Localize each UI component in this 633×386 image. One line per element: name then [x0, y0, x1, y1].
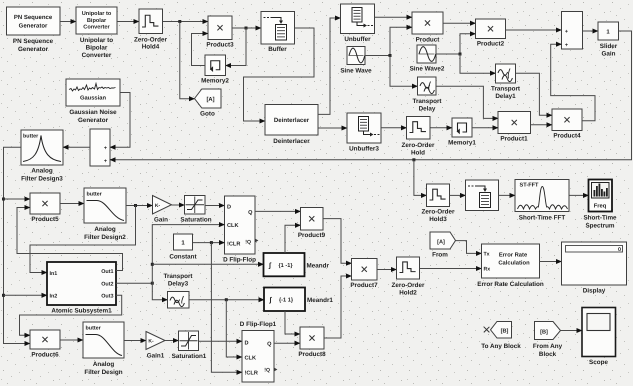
svg-text:Product: Product	[416, 37, 441, 44]
block Meandr1	[264, 288, 333, 312]
wire Out2 to junction tree	[116, 282, 152, 284]
svg-text:butter: butter	[87, 192, 103, 198]
block Unbuffer3	[347, 113, 381, 153]
svg-text:Zero-Order: Zero-Order	[402, 142, 435, 149]
svg-text:{1 -1}: {1 -1}	[279, 262, 294, 269]
block Memory1	[448, 118, 476, 147]
svg-text:Meandr: Meandr	[307, 263, 330, 270]
block Buffer1	[466, 180, 499, 211]
block Product1	[498, 112, 531, 143]
wire Meandr top to Product9 input 2	[285, 225, 301, 253]
junction Sine Wave2 output	[459, 53, 462, 56]
block Short-Time Spectrum	[583, 180, 617, 230]
gain block Gain	[153, 196, 172, 224]
svg-text:Converter: Converter	[82, 52, 112, 59]
svg-text:Product4: Product4	[553, 133, 581, 140]
junction Out2	[151, 282, 154, 285]
wire Sine Wave output with junction	[365, 27, 412, 55]
svg-text:PN Sequence: PN Sequence	[14, 14, 53, 21]
block Analog Filter Design3	[21, 130, 63, 182]
block Meandr	[264, 253, 330, 276]
svg-text:[A]: [A]	[437, 238, 445, 245]
block Product4	[552, 109, 582, 140]
svg-text:[A]: [A]	[206, 96, 214, 103]
wire junction down to Zero-Order Hold3	[414, 160, 427, 196]
svg-text:Transport: Transport	[412, 98, 442, 105]
wire Product4 output loop to Sum2 input 2	[551, 44, 595, 121]
svg-text:To Any Block: To Any Block	[481, 343, 521, 350]
block Analog Filter Design	[83, 322, 124, 376]
svg-text:Slider: Slider	[600, 43, 618, 50]
block D Flip-Flop	[223, 196, 258, 264]
wire Product9 to Product7 input 1	[323, 219, 352, 264]
wire Sine Wave2 output junction up to Product2 input 2	[436, 34, 476, 54]
wire junction down to Transport Delay1	[460, 54, 496, 73]
wire Zero-Order Hold2 to Error Rate Calculation Rx	[420, 268, 482, 270]
wire junction down to Atomic Subsystem1 In1	[30, 206, 136, 273]
wire Sum to Analog Filter Design3	[63, 146, 90, 148]
svg-text:+: +	[565, 43, 568, 49]
gain block Gain1	[146, 332, 165, 360]
svg-text:Freq: Freq	[594, 204, 607, 210]
svg-text:Zero-Order: Zero-Order	[392, 282, 425, 289]
wire Constant to D Flip-Flop !CLR	[193, 242, 225, 244]
svg-text:Gaussian Noise: Gaussian Noise	[69, 109, 117, 116]
wire Gaussian to Sum input 1	[110, 93, 130, 148]
block Sine Wave2	[410, 45, 445, 73]
wire Product to Product2	[443, 22, 476, 24]
junction left rail to In2	[2, 294, 5, 297]
svg-text:Hold: Hold	[411, 149, 425, 156]
sum block Sum (noise adder)	[90, 129, 110, 166]
block Saturation	[180, 196, 211, 224]
wire Analog Filter Design2 to Gain	[126, 205, 153, 207]
svg-text:D: D	[245, 340, 249, 346]
block Gaussian Noise Generator	[66, 79, 120, 124]
wire Meandr1 bottom to Product8 input 1	[285, 311, 300, 334]
svg-text:Memory1: Memory1	[448, 140, 476, 147]
svg-text:Rx: Rx	[484, 267, 491, 273]
junction Constant output	[210, 241, 213, 244]
block Deinterlacer	[265, 105, 318, 146]
block Unipolar to Bipolar Converter	[76, 7, 117, 59]
svg-text:Memory2: Memory2	[201, 78, 229, 85]
wire Short-Time FFT to Short-Time Spectrum	[569, 194, 589, 196]
svg-text:{-1 1}: {-1 1}	[279, 297, 294, 304]
svg-text:D Flip-Flop: D Flip-Flop	[223, 257, 256, 264]
svg-text:Spectrum: Spectrum	[585, 222, 614, 229]
wire Product8 to Product7 input 2	[324, 276, 352, 338]
svg-text:Hold2: Hold2	[399, 289, 417, 296]
svg-text:Error Rate: Error Rate	[499, 253, 528, 259]
svg-text:Gain: Gain	[154, 217, 168, 224]
wire junction down to D Flip-Flop1 CLK	[226, 300, 242, 357]
svg-text:Gaussian: Gaussian	[80, 95, 107, 102]
block Error Rate Calculation	[477, 244, 544, 288]
block Zero-Order Hold2	[392, 257, 425, 296]
svg-text:Product1: Product1	[500, 136, 528, 143]
svg-text:Delay3: Delay3	[168, 280, 189, 287]
svg-text:Analog: Analog	[93, 361, 114, 368]
svg-text:Saturation1: Saturation1	[172, 353, 207, 360]
wire Unipolar to Bipolar Converter to Zero-Order Hold4	[117, 21, 139, 23]
wire Deinterlacer output 1 to Unbuffer	[318, 18, 341, 114]
block Product6	[30, 330, 60, 359]
svg-text:Gain1: Gain1	[147, 353, 165, 360]
svg-text:+: +	[565, 29, 568, 35]
svg-text:Calculation: Calculation	[498, 259, 530, 266]
svg-text:Gain: Gain	[602, 50, 616, 57]
wire Analog Filter Design to Gain1	[124, 340, 146, 342]
svg-text:!CLR: !CLR	[245, 371, 258, 377]
svg-text:Saturation: Saturation	[180, 217, 211, 224]
from block From Any Block [B]	[533, 322, 563, 358]
wire Slider Gain feedback rail to Sum input 2	[110, 31, 632, 160]
svg-text:Zero-Order: Zero-Order	[422, 209, 455, 216]
svg-text:Generator: Generator	[19, 23, 48, 30]
svg-text:K-: K-	[155, 203, 161, 209]
svg-text:From Any: From Any	[533, 343, 563, 350]
svg-text:Analog: Analog	[94, 226, 115, 233]
junction Analog Filter Design2 output	[134, 204, 137, 207]
svg-text:Short-Time: Short-Time	[583, 215, 617, 222]
svg-text:!CLR: !CLR	[227, 241, 240, 247]
svg-text:Generator: Generator	[18, 46, 49, 53]
sum block Sum2	[562, 12, 583, 50]
block Product5	[30, 193, 60, 223]
svg-text:In1: In1	[50, 271, 58, 277]
svg-text:D: D	[227, 204, 231, 210]
wire Product2 to Sum2 input 1	[506, 29, 562, 31]
block Product7	[350, 259, 378, 290]
junction on Zero-Order Hold4 output	[178, 20, 181, 23]
svg-text:Sine Wave2: Sine Wave2	[410, 66, 445, 73]
wire Product5 to Analog Filter Design2	[60, 203, 84, 205]
wire Product1 to Product4 input 2	[531, 124, 553, 126]
svg-text:Scope: Scope	[589, 359, 608, 366]
svg-text:Tx: Tx	[484, 251, 490, 257]
wire Analog Filter Design3 output to left rail	[4, 147, 31, 343]
svg-text:Filter Design2: Filter Design2	[84, 234, 126, 241]
svg-text:butter: butter	[23, 134, 39, 140]
svg-text:Out1: Out1	[101, 269, 113, 275]
wire Zero-Order Hold4 to Product3 input 1	[163, 21, 209, 23]
svg-text:+: +	[104, 146, 107, 152]
svg-text:Sine Wave: Sine Wave	[340, 68, 372, 75]
wire junction down to Memory2 input	[226, 28, 247, 66]
svg-text:In2: In2	[50, 294, 58, 300]
wire left rail to Atomic Subsystem1 In2	[4, 294, 48, 296]
svg-text:[B]: [B]	[540, 328, 548, 335]
from block From [A]	[430, 232, 456, 259]
svg-text:Delay: Delay	[419, 105, 436, 112]
junction feedback rail to Zero-Order Hold3	[412, 158, 415, 161]
wire Out2 rail down to Transport Delay3	[152, 283, 167, 300]
junction Sine Wave output	[389, 54, 392, 57]
wire junction down to D Flip-Flop1 !CLR	[211, 243, 242, 373]
junction Transport Delay3 output	[225, 298, 228, 301]
block Product9	[298, 208, 326, 240]
block Zero-Order Hold3	[422, 184, 455, 223]
svg-text:Product3: Product3	[206, 42, 234, 49]
wire Saturation to D Flip-Flop D input	[205, 205, 225, 207]
wire Saturation1 to D Flip-Flop1 D input	[199, 340, 243, 342]
wire PN Sequence Generator to Unipolar to Bipolar Converter	[60, 21, 76, 23]
svg-text:Converter: Converter	[83, 25, 110, 31]
svg-text:Unbuffer3: Unbuffer3	[349, 146, 379, 153]
block PN Sequence Generator	[7, 7, 61, 53]
svg-text:Transport: Transport	[491, 86, 521, 93]
wire Sum2 to Slider Gain	[583, 30, 599, 32]
svg-text:Unipolar to: Unipolar to	[82, 10, 112, 17]
svg-text:Atomic Subsystem1: Atomic Subsystem1	[51, 308, 112, 315]
junction left rail to Product5	[2, 198, 5, 201]
svg-text:Meandr1: Meandr1	[307, 297, 333, 304]
svg-text:Out3: Out3	[101, 294, 113, 300]
wire Unbuffer3 to Zero-Order Hold	[381, 127, 407, 129]
wire Memory1 to Product1 input 2	[472, 127, 498, 129]
svg-text:Unbuffer: Unbuffer	[344, 36, 371, 43]
svg-text:Constant: Constant	[169, 254, 197, 261]
svg-text:Deinterlacer: Deinterlacer	[274, 117, 310, 124]
svg-text:CLK: CLK	[245, 356, 257, 362]
svg-text:Hold4: Hold4	[142, 44, 160, 51]
wire Buffer1 to Short-Time FFT	[499, 194, 516, 196]
block Atomic Subsystem1	[47, 262, 116, 315]
svg-text:Product9: Product9	[298, 232, 326, 239]
svg-text:Product2: Product2	[477, 41, 505, 48]
wire D Flip-Flop1 Q to Product8 input 2	[274, 342, 300, 344]
wire Zero-Order Hold to Memory1	[430, 127, 452, 129]
svg-text:Q: Q	[248, 210, 253, 216]
svg-text:ST-FFT: ST-FFT	[520, 183, 540, 189]
wire Transport Delay1 to Product4 input 1	[516, 73, 553, 115]
wire Out3 loop to Product6 input 1	[20, 295, 122, 335]
block Transport Delay	[412, 77, 442, 112]
goto block To Any Block [B]	[481, 322, 521, 351]
svg-text:Goto: Goto	[200, 111, 215, 118]
svg-text:Product6: Product6	[31, 352, 59, 359]
wire Gain to Saturation	[172, 204, 185, 206]
svg-text:Product7: Product7	[350, 282, 378, 289]
wire Error Rate Calculation to Display	[540, 261, 562, 263]
wire junction down to Transport Delay	[390, 56, 418, 87]
block Product8	[298, 327, 326, 358]
junction Out2 rail to Meandr	[151, 263, 154, 266]
svg-text:Zero-Order: Zero-Order	[134, 37, 167, 44]
block Sine Wave	[340, 47, 372, 75]
block Unbuffer	[341, 4, 375, 43]
block Scope	[582, 308, 616, 367]
wire D Flip-Flop Q to Product9 input 1	[255, 210, 301, 212]
svg-text:Unipolar to: Unipolar to	[80, 37, 113, 44]
svg-text:Product5: Product5	[31, 216, 59, 223]
wire Transport Delay to Product1 input 1	[436, 86, 498, 118]
svg-text:Transport: Transport	[163, 273, 193, 280]
svg-text:Product8: Product8	[298, 351, 326, 358]
wire Memory2 to Product3 input 2	[192, 34, 209, 66]
wire Transport Delay3 to Meandr1	[189, 299, 264, 301]
svg-text:Bipolar: Bipolar	[87, 17, 107, 24]
block Display	[562, 242, 627, 295]
block Product2	[476, 19, 506, 48]
svg-text:Deinterlacer: Deinterlacer	[273, 138, 310, 145]
svg-text:!Q: !Q	[264, 368, 270, 374]
svg-text:Out2: Out2	[101, 281, 113, 287]
wire Out2 up to D Flip-Flop CLK	[152, 225, 224, 284]
svg-text:Analog: Analog	[31, 168, 52, 175]
svg-text:!Q: !Q	[245, 239, 251, 245]
svg-text:Bipolar: Bipolar	[86, 45, 108, 52]
svg-text:Filter Design3: Filter Design3	[21, 175, 63, 182]
block Zero-Order Hold4	[134, 9, 167, 51]
svg-text:Error Rate Calculation: Error Rate Calculation	[477, 281, 544, 288]
wire Product7 to Zero-Order Hold2	[377, 269, 397, 271]
wire left rail to Product5 input 1	[4, 198, 31, 200]
svg-text:+: +	[104, 159, 107, 165]
block Short-Time FFT	[515, 180, 569, 222]
block Product	[412, 12, 443, 44]
block Transport Delay3	[163, 273, 193, 308]
block Buffer	[261, 12, 295, 54]
wire From to Error Rate Calculation Tx	[456, 241, 482, 254]
svg-text:From: From	[432, 252, 448, 259]
wire Out2 rail to Meandr input	[152, 263, 263, 265]
svg-text:Q: Q	[267, 342, 272, 348]
svg-text:Block: Block	[539, 351, 557, 358]
wire Deinterlacer output 2 to Unbuffer3	[318, 127, 347, 129]
block Slider Gain	[598, 22, 619, 57]
svg-text:Generator: Generator	[78, 117, 109, 124]
svg-text:Delay1: Delay1	[495, 93, 516, 100]
wire From Any Block to Scope	[561, 330, 583, 332]
svg-text:Display: Display	[583, 288, 606, 295]
wire junction down to Goto	[180, 22, 195, 99]
block Transport Delay1	[491, 64, 521, 100]
wire Product6 to Analog Filter Design	[60, 339, 83, 341]
block Constant	[169, 234, 197, 261]
svg-text:K-: K-	[148, 339, 154, 345]
svg-text:Hold3: Hold3	[429, 216, 447, 223]
svg-text:0: 0	[618, 247, 621, 253]
svg-text:D Flip-Flop1: D Flip-Flop1	[240, 321, 277, 328]
block Product3	[206, 16, 234, 49]
block Zero-Order Hold	[402, 117, 435, 157]
wire Zero-Order Hold3 to Buffer1	[450, 194, 466, 196]
goto block Goto [A]	[195, 89, 222, 118]
wire Gain1 to Saturation1	[165, 340, 179, 342]
block Saturation1	[172, 331, 207, 360]
junction on Product3 output	[245, 27, 248, 30]
svg-text:butter: butter	[86, 326, 102, 332]
wire Product3 to Buffer	[232, 27, 261, 29]
block Analog Filter Design2	[84, 188, 126, 241]
svg-text:Buffer: Buffer	[268, 46, 287, 53]
svg-text:CLK: CLK	[227, 223, 239, 229]
wire Out1 loop to Product5 input 2	[17, 208, 123, 271]
wire Buffer to Deinterlacer	[244, 28, 315, 121]
block Memory2	[201, 55, 229, 85]
wire Unbuffer to Product input 1	[375, 16, 413, 18]
svg-text:Filter Design: Filter Design	[84, 369, 122, 376]
svg-text:PN Sequence: PN Sequence	[13, 38, 54, 45]
block D Flip-Flop1	[240, 321, 278, 382]
svg-text:[B]: [B]	[501, 328, 509, 335]
svg-text:Short-Time FFT: Short-Time FFT	[519, 215, 566, 222]
